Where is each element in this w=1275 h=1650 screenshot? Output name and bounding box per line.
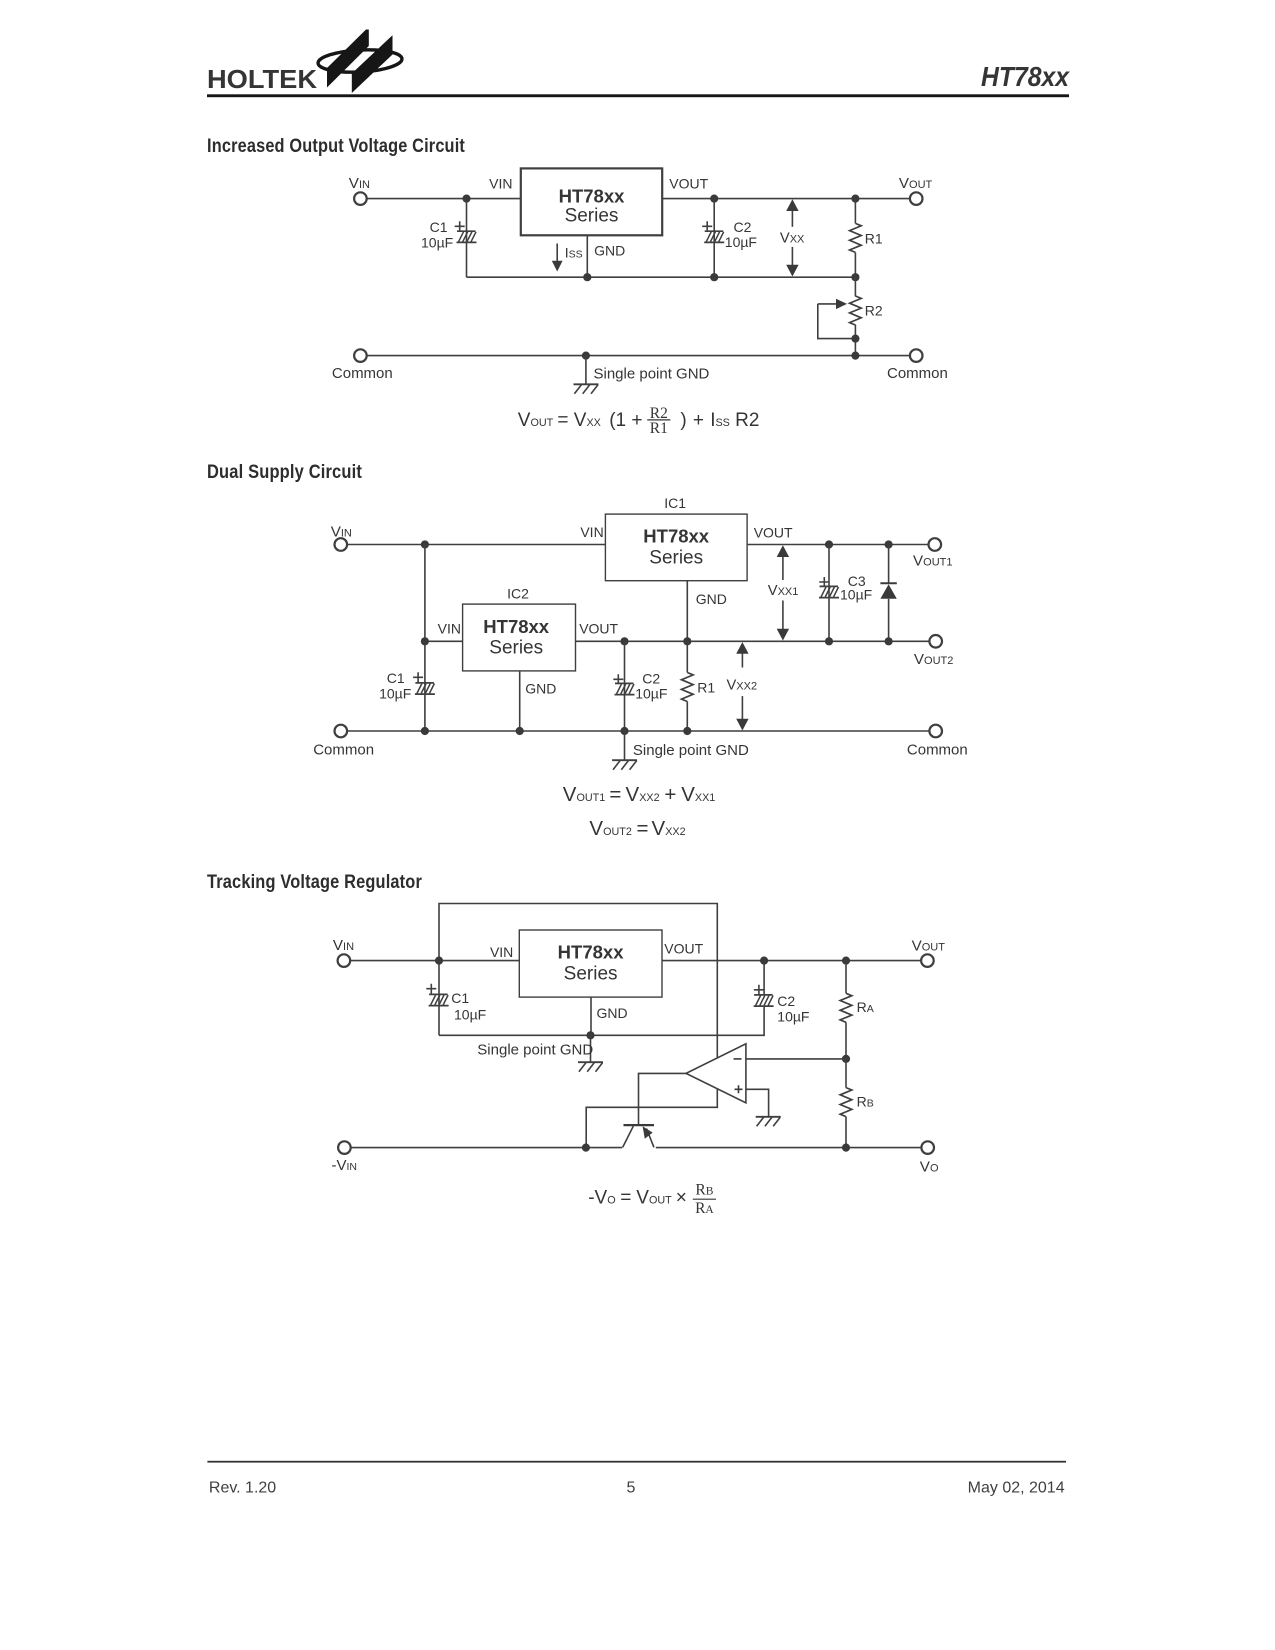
svg-text:VIN: VIN	[438, 621, 461, 637]
wire common rail	[347, 730, 929, 732]
resistor RA	[845, 961, 847, 994]
terminal VIN (top left)	[354, 192, 367, 205]
wire lower rail	[467, 276, 856, 278]
svg-text:R1: R1	[650, 420, 668, 437]
resistor R1	[854, 199, 856, 224]
ground single point	[612, 760, 637, 770]
node single point GND	[582, 352, 590, 360]
header rule	[207, 94, 1069, 97]
node diode bottom	[885, 637, 893, 645]
node feedback/VIN junction	[435, 957, 443, 965]
node C2 top	[710, 195, 718, 203]
potentiometer R2	[850, 296, 862, 325]
svg-text:Series: Series	[489, 637, 543, 658]
C3 plus mark	[819, 577, 829, 587]
terminal VIN	[335, 538, 348, 551]
transistor Q1 base bar	[624, 1124, 655, 1126]
svg-text:VIN: VIN	[489, 176, 512, 192]
svg-text:Series: Series	[565, 206, 619, 227]
ground op-amp ref	[756, 1117, 781, 1127]
R2 wiper arrow and loop	[818, 303, 838, 305]
node R1 bottom	[851, 273, 859, 281]
svg-text:10µF: 10µF	[777, 1008, 809, 1024]
node minus input junction	[842, 1055, 850, 1063]
svg-text:VXX: VXX	[780, 230, 805, 246]
svg-text:Dual Supply Circuit: Dual Supply Circuit	[207, 461, 362, 483]
svg-text:Common: Common	[907, 742, 968, 759]
svg-text:Common: Common	[887, 365, 948, 382]
svg-text:GND: GND	[696, 591, 727, 607]
node branch to IC2	[421, 540, 429, 548]
C1 plus mark	[455, 221, 465, 231]
Vxx2 measure arrow	[741, 651, 743, 668]
svg-text:GND: GND	[597, 1005, 628, 1021]
capacitor C2	[615, 683, 635, 694]
svg-text:HT78xx: HT78xx	[643, 526, 710, 547]
terminal Common right	[929, 725, 942, 738]
terminal Vo	[921, 1141, 934, 1154]
wire C3 vertical	[828, 545, 830, 642]
svg-text:(1 +: (1 +	[609, 410, 642, 431]
wire feedback loop (top rectangle + right drop)	[439, 904, 717, 1148]
svg-text:Single point GND: Single point GND	[594, 366, 710, 383]
svg-text:Series: Series	[564, 964, 618, 985]
svg-text:): )	[680, 410, 686, 431]
node GND junction	[586, 1031, 594, 1039]
terminal VOUT1	[929, 538, 942, 551]
wire GND pin down	[590, 997, 592, 1035]
svg-text:C2: C2	[734, 219, 752, 235]
node C3 bottom	[825, 637, 833, 645]
regulator IC2 box HT78xx Series	[463, 604, 576, 671]
capacitor C1	[457, 231, 477, 242]
footer rule	[207, 1461, 1066, 1463]
svg-text:C1: C1	[387, 670, 405, 686]
capacitor C3	[819, 586, 839, 597]
regulator U1 box HT78xx Series	[521, 168, 662, 235]
node single point GND	[620, 727, 628, 735]
svg-text:VOUT: VOUT	[579, 621, 618, 637]
op-amp plus sign	[735, 1085, 743, 1093]
svg-text:C1: C1	[430, 219, 448, 235]
wire output rail (thick) to Vo	[656, 1147, 922, 1149]
regulator box HT78xx Series	[519, 930, 662, 997]
svg-text:IC2: IC2	[507, 586, 529, 602]
node R2 bottom junction	[851, 335, 859, 343]
capacitor C1	[415, 683, 435, 694]
svg-text:VIN: VIN	[490, 944, 513, 960]
op-amp minus sign	[734, 1058, 742, 1060]
wire VIN to IC2	[425, 640, 463, 642]
terminal VOUT (top right)	[910, 192, 923, 205]
op-amp U2 triangle	[686, 1044, 746, 1103]
diode D1	[888, 545, 890, 584]
Iss arrow	[556, 244, 558, 263]
wire VIN to regulator	[367, 198, 521, 200]
svg-text:VXX2: VXX2	[727, 677, 758, 693]
wire common rail	[367, 355, 910, 357]
svg-text:+: +	[693, 410, 704, 431]
wire GND symbol stub	[590, 1035, 592, 1061]
node C2 bottom	[710, 273, 718, 281]
svg-text:Series: Series	[649, 548, 703, 569]
wire left vertical	[424, 545, 426, 732]
regulator IC1 box HT78xx Series	[605, 514, 747, 581]
wire GND pin down	[586, 235, 588, 277]
node feedback bottom junction	[582, 1144, 590, 1152]
capacitor C2	[754, 995, 774, 1006]
logo ellipse	[317, 48, 402, 74]
terminal VIN	[338, 954, 351, 967]
svg-text:VOUT: VOUT	[754, 524, 793, 540]
wire C2 vertical (thick)	[624, 641, 626, 731]
node C2 top	[620, 637, 628, 645]
logo bolt 2	[352, 35, 393, 93]
wire single point GND rail	[439, 1006, 764, 1035]
Vxx measure arrow	[791, 208, 793, 227]
svg-text:VOUT: VOUT	[669, 176, 708, 192]
logo bolt 1	[327, 30, 369, 88]
wire R1 to R2	[854, 277, 856, 296]
node GND/R1	[683, 637, 691, 645]
svg-text:HT78xx: HT78xx	[483, 616, 550, 637]
terminal VOUT2	[929, 635, 942, 648]
node R1 bottom	[683, 727, 691, 735]
wire GND stub	[624, 731, 626, 760]
wire GND stub	[585, 356, 587, 384]
svg-text:Increased Output Voltage Circu: Increased Output Voltage Circuit	[207, 135, 465, 157]
wire op-amp minus input	[746, 1058, 846, 1060]
svg-text:C2: C2	[642, 670, 660, 686]
svg-text:Single point GND: Single point GND	[477, 1041, 593, 1058]
node GND rail	[583, 273, 591, 281]
svg-text:R2: R2	[735, 410, 759, 431]
svg-text:10µF: 10µF	[725, 234, 757, 250]
C1 plus mark	[426, 984, 436, 994]
svg-text:10µF: 10µF	[379, 685, 411, 701]
wire op-amp output to transistor base	[639, 1073, 687, 1125]
svg-text:=: =	[620, 1188, 631, 1209]
svg-text:10µF: 10µF	[635, 685, 667, 701]
svg-text:Common: Common	[332, 365, 393, 382]
node RB bottom	[842, 1144, 850, 1152]
resistor RB	[845, 1059, 847, 1088]
wire -VIN rail	[351, 1147, 622, 1149]
wire IC2 GND down	[519, 671, 521, 731]
svg-text:HT78xx: HT78xx	[559, 186, 626, 207]
wire op-amp plus input to ground	[746, 1089, 769, 1116]
terminal Common left	[335, 725, 348, 738]
transistor right leg with arrow	[647, 1129, 654, 1148]
svg-text:10µF: 10µF	[454, 1006, 486, 1022]
svg-text:=: =	[609, 783, 621, 806]
wire VOUT to terminal	[662, 198, 910, 200]
terminal VOUT	[921, 954, 934, 967]
node C2 top	[760, 957, 768, 965]
svg-text:Common: Common	[313, 742, 374, 759]
wire IC1 VOUT to VOUT1	[747, 544, 928, 546]
resistor R1	[686, 641, 688, 672]
wire C2 vertical (thick)	[763, 961, 765, 996]
svg-text:5: 5	[627, 1480, 636, 1497]
svg-text:Rev. 1.20: Rev. 1.20	[209, 1480, 276, 1497]
svg-text:10µF: 10µF	[840, 587, 872, 603]
node diode top	[885, 540, 893, 548]
svg-text:=: =	[557, 410, 568, 431]
svg-text:+: +	[664, 783, 676, 806]
svg-text:Tracking Voltage Regulator: Tracking Voltage Regulator	[207, 871, 422, 893]
svg-text:C1: C1	[451, 990, 469, 1006]
svg-text:GND: GND	[525, 680, 556, 696]
wire C1 vertical	[466, 199, 468, 278]
terminal -VIN	[338, 1141, 351, 1154]
svg-text:May 02, 2014: May 02, 2014	[968, 1480, 1065, 1497]
node C3 top	[825, 540, 833, 548]
wire IC1 GND down	[686, 581, 688, 642]
node IC2 VIN	[421, 637, 429, 645]
svg-text:×: ×	[676, 1188, 687, 1209]
C1 plus mark	[413, 672, 423, 682]
svg-text:Single point GND: Single point GND	[633, 742, 749, 759]
node RA top	[842, 957, 850, 965]
node R1 top	[851, 195, 859, 203]
svg-text:IC1: IC1	[664, 495, 686, 511]
wire IC2 VOUT rail to VOUT2	[576, 640, 930, 642]
node R2 loop on rail	[851, 352, 859, 360]
ground single point	[578, 1062, 603, 1072]
svg-text:HOLTEK: HOLTEK	[207, 66, 318, 94]
terminal Common (left)	[354, 349, 367, 362]
svg-text:VIN: VIN	[580, 524, 603, 540]
C2 plus mark	[754, 985, 764, 995]
svg-text:GND: GND	[594, 242, 625, 258]
capacitor C2	[704, 231, 724, 242]
wire VIN rail to IC1	[347, 544, 605, 546]
svg-text:C2: C2	[777, 993, 795, 1009]
node IC2 GND bottom	[516, 727, 524, 735]
svg-text:10µF: 10µF	[421, 235, 453, 251]
capacitor C1	[429, 994, 449, 1005]
svg-text:VXX1: VXX1	[768, 583, 799, 599]
svg-text:HT78xx: HT78xx	[558, 942, 625, 963]
node C1 bottom	[421, 727, 429, 735]
svg-text:=: =	[637, 817, 649, 840]
svg-text:R2: R2	[865, 302, 883, 318]
Vxx1 measure arrow	[782, 554, 784, 580]
wire VOUT rail	[662, 960, 921, 962]
svg-text:R1: R1	[865, 230, 883, 246]
node C1 top junction	[462, 195, 470, 203]
ground single point	[574, 384, 599, 394]
transistor left leg	[623, 1126, 634, 1147]
svg-text:R1: R1	[697, 680, 715, 696]
wire VIN to regulator	[350, 960, 519, 962]
svg-text:HT78xx: HT78xx	[981, 61, 1071, 92]
wire C2 vertical	[713, 199, 715, 278]
svg-text:VOUT: VOUT	[664, 941, 703, 957]
C2 plus mark	[702, 221, 712, 231]
C2 plus mark	[613, 674, 623, 684]
terminal Common (right)	[910, 349, 923, 362]
